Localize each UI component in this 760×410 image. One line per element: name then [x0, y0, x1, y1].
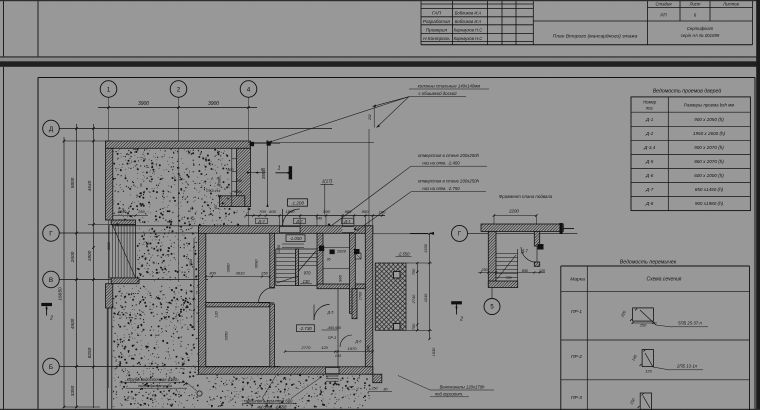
left side dim 900: [193, 238, 195, 330]
axis line Д horizontal: [59, 128, 332, 130]
vent box 2b: [354, 249, 360, 254]
vent box 2: [330, 250, 335, 255]
interior cross wall left: [206, 302, 270, 307]
door tag Д-1: [342, 218, 354, 223]
axis circle 2: [170, 81, 187, 98]
small rooms block: [231, 148, 233, 206]
fragment axis circle Г: [452, 225, 468, 241]
level label -2.730: [297, 325, 315, 332]
axis end flag: [560, 223, 563, 234]
bottom dim chain: [285, 351, 373, 353]
wall post B: [267, 142, 271, 146]
fragment steps: [496, 253, 518, 255]
outside steps: [326, 375, 339, 377]
apartment top wall: [199, 226, 373, 234]
outdoor stair top wall: [111, 220, 135, 225]
fragment top wall: [481, 224, 563, 231]
porch post bottom: [394, 324, 401, 331]
sheet1 bottom edge: [0, 56, 760, 57]
top wall door opening Д-2: [280, 227, 301, 233]
dark gap between sheets: [0, 61, 760, 67]
dim chain rows: [76, 124, 78, 408]
sheet2 left outer edge: [3, 67, 5, 410]
terrace gravel speckle bottom strip: [209, 375, 370, 408]
closet partition: [337, 289, 339, 367]
door arc wall A: [259, 287, 275, 303]
porch post top: [394, 272, 401, 279]
sheet1 left outer edge: [3, 0, 5, 57]
extension line pier: [368, 129, 370, 226]
apartment bottom wall: [199, 367, 373, 374]
opening extension ticks: [279, 216, 281, 226]
fragment right wall upper: [534, 231, 539, 246]
lintel dim ticks PR3: [642, 394, 644, 396]
terrace inner right wall: [237, 148, 251, 206]
wall post A: [250, 142, 254, 146]
axis circle 1: [100, 81, 117, 98]
terrace level edge: [113, 225, 199, 227]
axis line Б horizontal: [59, 366, 280, 368]
door arc hall: [314, 305, 330, 321]
door arc Д-2 entrance: [283, 209, 300, 226]
lintel dim ticks PR1: [635, 309, 637, 311]
stair cut line: [299, 251, 317, 271]
stair top dim: [109, 215, 149, 217]
dim chain 16650: [63, 137, 65, 408]
photo grain: [0, 0, 1, 1]
interior wall B: [317, 233, 323, 284]
vent box 1: [319, 246, 324, 252]
axis line 2 vertical: [178, 97, 180, 282]
section mark 2 right: [451, 301, 462, 304]
terrace edge lines: [106, 309, 108, 409]
axis line Г horizontal: [59, 232, 208, 234]
axis circle В: [43, 271, 60, 288]
section mark 1 left: [276, 172, 289, 174]
outdoor stair block: [109, 225, 136, 278]
apartment right wall: [365, 226, 373, 374]
lintel table grid: [561, 265, 750, 267]
bath wall vertical: [350, 233, 356, 313]
axis circle Д: [43, 120, 60, 137]
dim chain inner: [93, 124, 95, 408]
door table grid: [631, 97, 750, 211]
terrace gravel speckle upper: [114, 149, 232, 225]
fragment door leaf: [536, 246, 538, 262]
fragment dim 2200: [494, 215, 536, 217]
axis circle Б: [43, 358, 60, 375]
level label -1.050: [286, 235, 305, 242]
axis circle Г: [43, 225, 60, 242]
dim 3550: [267, 143, 269, 205]
section mark 2 left: [41, 303, 52, 306]
extension line wall top right: [248, 142, 374, 144]
terrace top wall: [106, 141, 251, 148]
axis line 4 vertical: [248, 97, 250, 234]
room L1 dim line: [206, 276, 270, 278]
vent box 3: [355, 253, 361, 259]
left wall segment below stairs: [106, 284, 113, 308]
downpipe circle: [197, 391, 202, 396]
top dim line: [98, 107, 257, 109]
interior wall A: [270, 233, 275, 288]
small partition right: [352, 289, 357, 319]
axis line В horizontal: [59, 279, 208, 281]
backfill leaders: [262, 376, 276, 399]
fragment axis circle 5: [484, 299, 500, 315]
interior cross wall right: [317, 284, 365, 289]
outdoor stair bottom wall: [111, 278, 139, 284]
sheet1 frame left: [37, 0, 39, 57]
fragment dim line: [478, 272, 545, 274]
terrace gravel speckle left arm: [137, 227, 198, 281]
fragment axis line: [468, 232, 578, 234]
corner pier bottom right: [373, 374, 382, 383]
fragment left wall: [488, 231, 496, 286]
apartment left wall: [199, 226, 206, 374]
fragment axis arrow: [410, 232, 428, 234]
porch dims: [416, 263, 418, 330]
stair diagonal: [112, 225, 135, 278]
axis circle 4: [240, 81, 257, 98]
door handle box: [538, 244, 544, 250]
bath partitions: [323, 247, 350, 249]
sheet2 drawing frame: [38, 77, 755, 79]
lintel dim ticks PR2: [644, 350, 646, 352]
fragment bottom wall: [488, 281, 517, 288]
chain extension lines: [64, 140, 112, 142]
photo edges: [0, 0, 760, 1]
terrace left wall: [106, 148, 113, 220]
opening dim chain: [246, 215, 385, 217]
fragment right wall lower: [534, 262, 539, 266]
porch deck: [375, 263, 406, 330]
terrace gravel speckle left arm lower: [113, 286, 198, 408]
door tag Д-2: [294, 218, 306, 223]
terrace gravel speckle mid strip: [234, 210, 249, 225]
leaders steel columns: [373, 97, 410, 107]
door tag Д-3: [256, 218, 268, 223]
top wall door opening Д-1: [343, 227, 355, 233]
landing lines: [282, 243, 304, 245]
central stair flight: [276, 249, 317, 286]
terrace corner block: [220, 196, 245, 207]
bottom wall opening: [326, 368, 340, 374]
title block grid: [420, 0, 422, 45]
door arc closet: [340, 335, 352, 347]
axis line 1 vertical: [108, 97, 110, 388]
level label -1.200: [288, 199, 308, 206]
